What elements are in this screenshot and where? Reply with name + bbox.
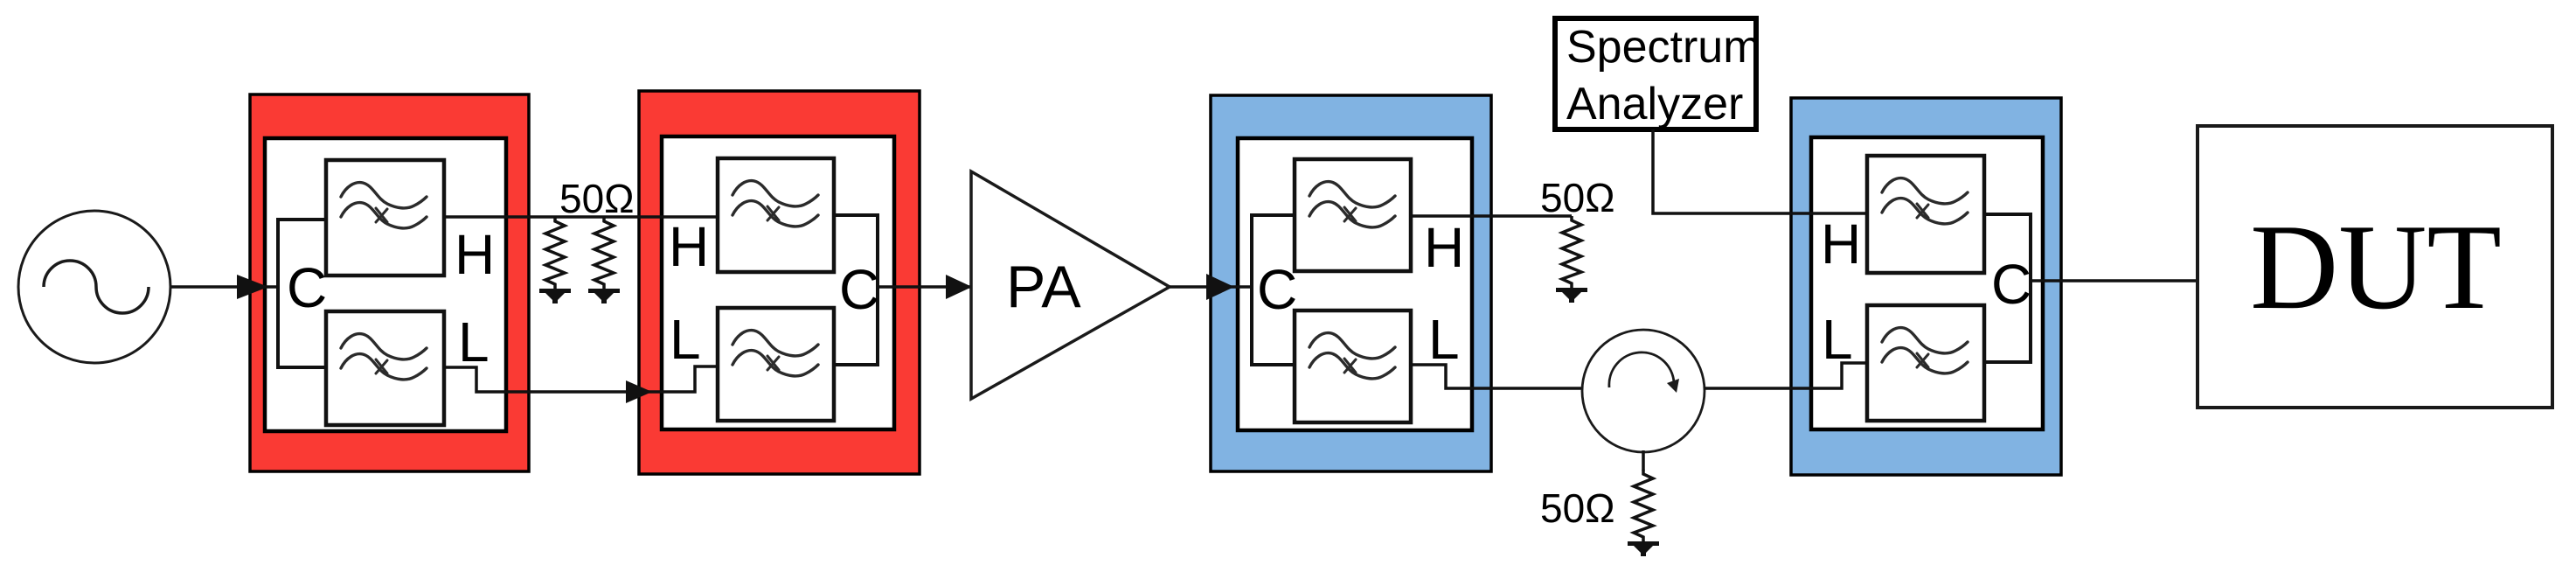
arrowhead on L wire into U2 [626,380,652,403]
arrowhead into PA [946,275,972,299]
wire L out of U3 to circulator [1411,365,1582,388]
node C bracket U2 [834,215,878,365]
wire circulator down to R4 [1642,450,1645,471]
svg-text:DUT: DUT [2250,199,2502,335]
svg-text:C: C [1991,253,2031,316]
svg-text:Analyzer: Analyzer [1566,79,1743,129]
filter block U1 low-pass [326,311,444,425]
filter block U1 high-pass [326,160,444,276]
filter block U3 low-pass [1295,310,1411,422]
wire C out of U4 to DUT [2031,279,2198,283]
diplexer U1 inner box [265,138,506,431]
svg-text:50Ω: 50Ω [1540,485,1615,531]
node C bracket U4 [1984,214,2031,362]
circulator circle [1582,330,1705,452]
filter block U4 high-pass [1867,156,1984,273]
filter block U4 low-pass [1867,305,1984,421]
svg-text:L: L [1428,308,1460,371]
spectrum analyzer box [1555,18,1756,129]
circulator arrow arc [1609,352,1674,387]
diplexer U2 red outer box [639,91,920,474]
svg-text:Spectrum: Spectrum [1566,22,1761,73]
filter block U2 low-pass [718,308,834,421]
svg-text:H: H [1821,213,1861,276]
svg-text:C: C [1257,258,1297,321]
svg-text:H: H [669,215,709,278]
resistor R1 50ohm [539,217,571,303]
arrowhead into diplexer 3 [1206,274,1234,300]
wire H out of U3 to R3 [1411,214,1572,218]
op-amp PA triangle [971,171,1170,399]
diplexer U4 blue outer box [1791,98,2061,475]
diplexer U1 red outer box [250,94,529,471]
diplexer U2 inner box [662,136,894,429]
svg-text:50Ω: 50Ω [1540,175,1615,220]
source V1 circle [18,211,170,363]
svg-text:C: C [287,256,327,319]
diplexer U4 inner box [1811,137,2043,429]
wire spectrum analyzer to U4 H input [1653,129,1867,213]
svg-text:L: L [670,308,701,371]
svg-text:50Ω: 50Ω [559,176,635,221]
resistor R2 50ohm [588,217,620,303]
resistor R3 50ohm termination [1556,216,1587,303]
wire H out of U1 to U2 (through 50ohm taps) [444,215,718,219]
filter block U3 high-pass [1295,159,1411,271]
node C bracket U3 [1252,215,1295,365]
filter block U2 high-pass [718,158,834,272]
svg-text:H: H [1424,216,1464,279]
svg-text:L: L [1822,308,1853,371]
wire C out of U2 to PA [878,285,971,289]
DUT box [2198,126,2552,408]
arrowhead into diplexer 1 [237,275,268,299]
resistor R4 50ohm termination [1628,470,1659,556]
diplexer U3 blue outer box [1211,95,1491,471]
wire PA to diplexer 3 [1170,285,1252,289]
svg-text:L: L [458,310,490,373]
svg-text:C: C [839,258,879,321]
wire L out of U1 stepping down to U2 [444,366,718,392]
svg-text:H: H [455,223,495,286]
svg-text:PA: PA [1006,254,1081,320]
node C bracket U1 [278,220,326,367]
wire circulator to U4 L input [1705,363,1867,388]
wire source to diplexer 1 [171,285,278,289]
diplexer U3 inner box [1238,138,1472,430]
